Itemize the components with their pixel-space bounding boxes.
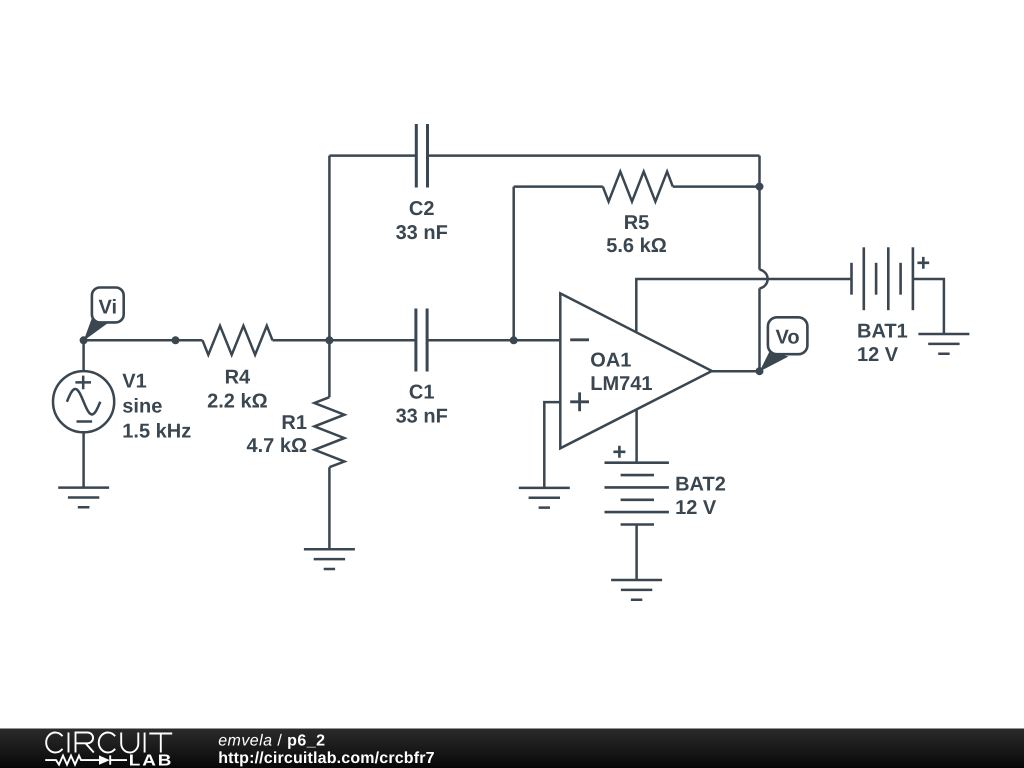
- svg-text:R1: R1: [281, 412, 307, 434]
- svg-text:12 V: 12 V: [675, 497, 717, 519]
- svg-text:4.7 kΩ: 4.7 kΩ: [246, 435, 307, 457]
- svg-text:C2: C2: [409, 198, 435, 220]
- svg-text:sine: sine: [122, 396, 162, 418]
- svg-text:BAT2: BAT2: [675, 473, 726, 495]
- svg-text:2.2 kΩ: 2.2 kΩ: [207, 391, 268, 413]
- svg-text:1.5 kHz: 1.5 kHz: [122, 421, 191, 443]
- svg-text:V1: V1: [122, 371, 146, 393]
- svg-text:5.6 kΩ: 5.6 kΩ: [606, 235, 667, 257]
- svg-text:OA1: OA1: [590, 349, 631, 371]
- svg-text:R4: R4: [225, 367, 251, 389]
- svg-text:33 nF: 33 nF: [396, 222, 448, 244]
- svg-text:LM741: LM741: [590, 373, 652, 395]
- svg-text:33 nF: 33 nF: [396, 406, 448, 428]
- svg-text:12 V: 12 V: [857, 344, 899, 366]
- svg-text:C1: C1: [409, 382, 435, 404]
- svg-text:http://circuitlab.com/crcbfr7: http://circuitlab.com/crcbfr7: [218, 750, 435, 767]
- svg-text:BAT1: BAT1: [857, 320, 908, 342]
- svg-text:LAB: LAB: [129, 752, 173, 768]
- svg-text:Vi: Vi: [99, 297, 118, 319]
- svg-text:Vo: Vo: [776, 326, 800, 348]
- svg-text:emvela / p6_2: emvela / p6_2: [218, 732, 325, 749]
- svg-text:R5: R5: [624, 212, 650, 234]
